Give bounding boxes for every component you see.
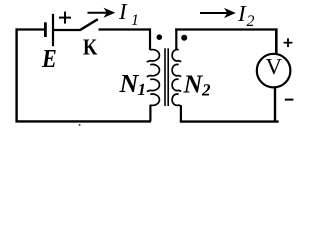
svg-text:I: I [237,1,247,26]
svg-text:K: K [83,35,97,60]
voltmeter + terminal label [284,38,293,47]
wire: voltmeter top lead [275,28,278,54]
battery polarity + sign [59,12,71,24]
polarity dot secondary [181,35,187,41]
secondary coil N2 bottom lead [180,105,182,121]
polarity dot primary [157,34,163,40]
svg-text:N: N [183,70,204,99]
svg-text:N: N [119,69,140,98]
wire: left loop left side [15,28,17,122]
svg-text:V: V [266,54,283,79]
wire: left loop top-left segment [16,28,45,30]
svg-text:1: 1 [138,80,147,99]
primary coil N1 bottom lead [149,105,151,122]
battery E negative plate (short bar) [44,22,47,37]
wire: secondary loop bottom [180,120,279,122]
svg-text:E: E [41,44,57,73]
primary coil N1 turns [147,50,160,106]
voltmeter V body [257,54,291,88]
stray dot (speck below bottom wire) [79,124,81,125]
secondary coil N2 top lead [175,28,177,50]
svg-text:2: 2 [201,81,211,100]
switch K lever (open blade) [80,19,98,30]
voltmeter − terminal label [285,99,294,101]
transformer core (two lamination lines) [165,48,168,106]
battery E positive plate (long bar) [52,14,54,46]
wire: secondary top to voltmeter [175,28,277,30]
svg-text:I: I [118,0,128,24]
wire: battery to switch pivot [54,29,81,31]
voltmeter bottom lead [274,88,276,123]
wire: left loop bottom [16,120,152,122]
secondary coil N2 turns [172,49,181,106]
current arrow I2 [200,8,236,18]
svg-text:1: 1 [131,12,139,29]
primary coil N1 top lead [149,28,151,50]
wire: switch fixed contact to transformer primary [99,28,152,30]
current arrow I1 [88,8,116,18]
svg-text:2: 2 [247,13,255,30]
